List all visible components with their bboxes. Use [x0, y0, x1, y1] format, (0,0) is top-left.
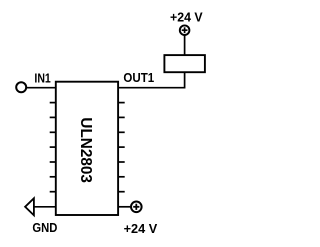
pin stub IN6 [50, 161, 56, 163]
svg-text:GND: GND [32, 221, 57, 235]
svg-text:IN1: IN1 [34, 71, 50, 85]
terminal +24V bottom [131, 202, 142, 213]
pin stub IN8 [50, 191, 56, 193]
pin stub IN5 [50, 146, 56, 148]
svg-text:OUT1: OUT1 [123, 71, 154, 85]
ground arrow GND [25, 198, 34, 215]
pin stub IN2 [50, 102, 56, 104]
pin stub OUT8 [118, 191, 125, 193]
wire +24V terminal to load [184, 35, 186, 55]
pin stub IN3 [50, 116, 56, 118]
wire GND pin 9 [34, 206, 56, 208]
wire U1 COM pin to +24V terminal [118, 206, 131, 208]
svg-text:+24 V: +24 V [170, 10, 203, 24]
IC U1 ULN2803 [56, 82, 118, 215]
pin stub IN4 [50, 131, 56, 133]
pin stub OUT5 [118, 146, 125, 148]
load box [164, 55, 205, 72]
pin stub OUT4 [118, 131, 125, 133]
svg-text:+24 V: +24 V [124, 222, 158, 236]
svg-text:ULN2803: ULN2803 [77, 117, 94, 183]
pin stub OUT6 [118, 161, 125, 163]
pin stub IN7 [50, 176, 56, 178]
terminal +24V top [180, 25, 190, 35]
pin stub OUT7 [118, 176, 125, 178]
wire OUT1 from U1 to load [118, 72, 185, 88]
pin stub OUT3 [118, 116, 125, 118]
terminal IN1 [16, 82, 26, 92]
wire IN1 terminal to U1 pin 1 [26, 87, 56, 89]
pin stub OUT2 [118, 102, 125, 104]
